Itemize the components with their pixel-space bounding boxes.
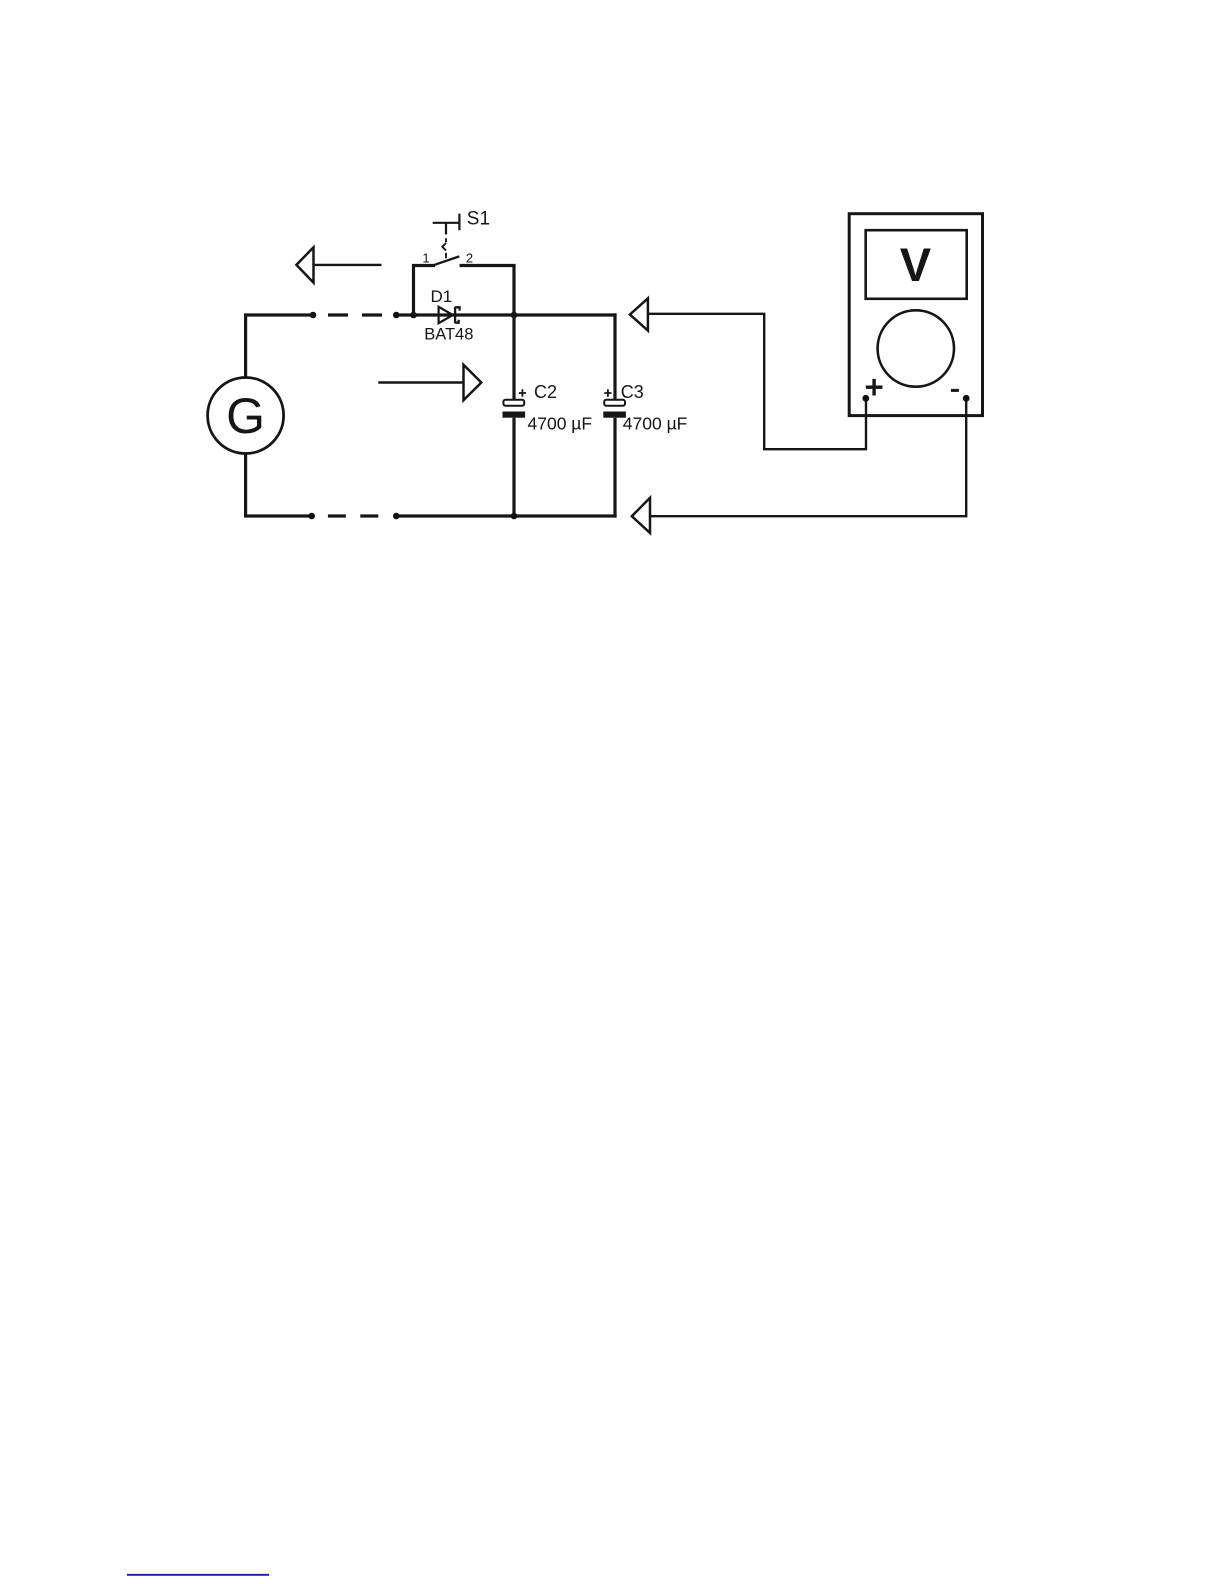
probe arrow upper-right (points left at top rail) — [630, 298, 648, 330]
voltmeter + terminal label — [866, 379, 883, 396]
node: C2 bottom junction — [511, 513, 518, 520]
svg-text:V: V — [900, 238, 932, 291]
capacitor C2 polarity mark — [519, 389, 526, 396]
svg-text:S1: S1 — [467, 209, 490, 230]
wire: switch branch right leg — [460, 266, 514, 316]
wire: generator bottom lead to bottom rail corner — [246, 453, 312, 517]
hyperlink underline — [127, 1574, 269, 1576]
voltmeter + terminal — [862, 395, 869, 402]
capacitor C2 bottom plate — [503, 412, 526, 418]
wire: voltmeter + lead — [648, 314, 866, 449]
capacitor C2 top plate — [503, 400, 524, 406]
diode D1 symbol — [439, 307, 460, 323]
switch S1 lever — [435, 256, 460, 264]
node: bottom rail dot B — [393, 513, 400, 520]
node: switch branch junction — [410, 312, 417, 319]
wire: C2 bottom lead — [512, 418, 515, 516]
svg-text:G: G — [226, 388, 265, 444]
wire: top rail dashed section — [328, 313, 382, 316]
wire: C3 bottom lead — [613, 418, 616, 518]
switch S1 pushbutton actuator — [433, 214, 460, 235]
svg-text:4700 µF: 4700 µF — [623, 414, 688, 434]
capacitor C3 top plate — [604, 400, 625, 406]
capacitor C3 polarity mark — [604, 389, 611, 396]
probe arrow top-left (points left) — [296, 247, 381, 282]
node: diode cathode junction — [511, 312, 518, 319]
switch S1 dashed spring link — [442, 238, 446, 258]
voltmeter − terminal label — [951, 389, 959, 392]
svg-text:1: 1 — [422, 250, 429, 265]
svg-text:C3: C3 — [621, 382, 644, 402]
wire: switch branch left leg — [414, 266, 436, 316]
voltmeter body — [849, 214, 982, 416]
voltmeter display — [866, 230, 967, 299]
wire: bottom rail dashed section — [328, 514, 378, 517]
voltmeter − terminal — [963, 395, 970, 402]
wire: top rail through diode to C3 corner — [396, 313, 616, 316]
wire: bottom rail — [396, 514, 616, 517]
wire: C3 top lead — [613, 313, 616, 399]
probe arrow lower-right (points left at bottom rail) — [632, 498, 650, 533]
svg-text:D1: D1 — [431, 287, 453, 306]
generator G1 circle — [208, 378, 284, 454]
flow arrow middle (points right) — [378, 365, 481, 400]
wire: voltmeter − lead — [650, 398, 966, 516]
svg-text:2: 2 — [466, 250, 473, 265]
svg-text:BAT48: BAT48 — [424, 326, 473, 344]
capacitor C3 bottom plate — [603, 412, 626, 418]
wire: C2 top lead — [512, 315, 515, 400]
node: top rail dot A — [310, 312, 317, 319]
svg-text:4700 µF: 4700 µF — [528, 414, 593, 434]
node: top rail dot B — [393, 312, 400, 319]
svg-text:C2: C2 — [534, 382, 557, 402]
wire: generator top lead to top rail corner — [246, 315, 313, 379]
voltmeter dial — [878, 310, 954, 386]
node: bottom rail dot A — [308, 513, 315, 520]
